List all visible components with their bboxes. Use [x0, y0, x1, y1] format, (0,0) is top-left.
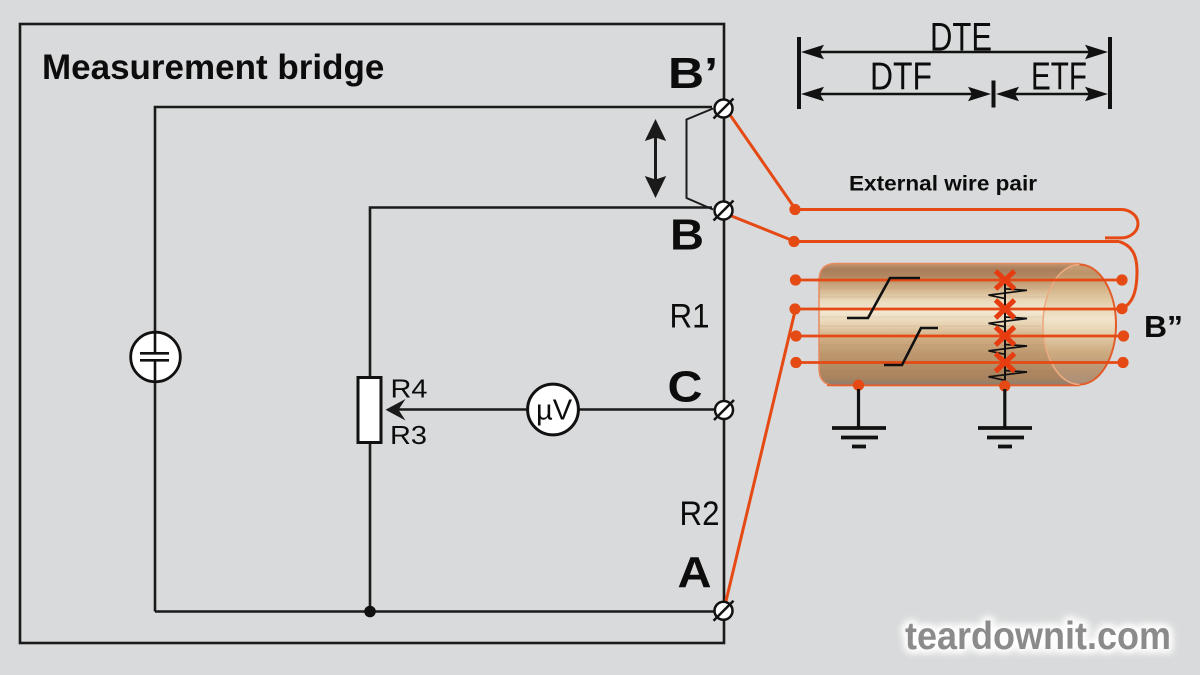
node dot cable wire 1 left [790, 274, 801, 285]
double arrow [645, 119, 666, 198]
node dot cable wire 4 right [1117, 357, 1128, 368]
pot wiper arrow [386, 399, 406, 421]
orange wire B' to pair top [728, 112, 796, 210]
svg-text:µV: µV [536, 395, 573, 427]
DTF arrow [818, 93, 975, 96]
voltage source U1 [131, 332, 181, 382]
node dot cable wire 1 right [1116, 274, 1127, 285]
node C [714, 400, 734, 420]
zigzag 2 [989, 317, 1028, 327]
microvoltmeter [528, 384, 579, 435]
wire top bridge (B' branch) [155, 107, 712, 612]
node dot pair wire bottom [788, 236, 799, 247]
svg-text:B: B [670, 211, 704, 260]
cable end cap [1043, 265, 1116, 385]
left bar [797, 37, 801, 109]
external pair bottom wire [794, 240, 1119, 243]
orange wire B to pair bottom [729, 215, 795, 242]
wire second bridge (B branch) [370, 208, 712, 612]
splice mark 2 [884, 328, 938, 365]
node dot cable wire 3 left [790, 330, 801, 341]
zigzag 4 [989, 371, 1028, 381]
ground 1 [832, 380, 886, 447]
node dot cable wire 4 left [790, 357, 801, 368]
splice mark 1 [847, 278, 920, 318]
node B [714, 201, 734, 221]
X fault 3 [996, 327, 1015, 345]
measurement bridge box [20, 24, 724, 643]
node A [714, 601, 734, 621]
X fault 2 [996, 300, 1015, 318]
orange wire A to cable wire 2 [726, 309, 796, 601]
svg-text:teardownit.com: teardownit.com [905, 615, 1171, 658]
potentiometer R4/R3 [358, 378, 381, 443]
svg-text:R2: R2 [680, 495, 720, 533]
svg-text:R4: R4 [391, 374, 428, 404]
bracket strap B'-B [687, 109, 714, 210]
svg-text:ETF: ETF [1031, 56, 1087, 99]
svg-text:DTE: DTE [930, 16, 992, 60]
middle bar [992, 81, 996, 108]
svg-text:B’: B’ [668, 49, 718, 98]
node B' [714, 99, 734, 119]
node dot cable wire 3 right [1118, 330, 1129, 341]
cylinder bottom edge accent [827, 384, 1079, 386]
cable wire 4 [796, 361, 1123, 364]
junction dot [364, 606, 376, 618]
end cap right outline accent [1080, 265, 1117, 385]
svg-text:DTF: DTF [870, 56, 932, 99]
right bar [1108, 37, 1112, 109]
cable wire 1 [796, 279, 1123, 282]
DTE arrow [818, 51, 1091, 54]
wire bottom [155, 610, 714, 613]
svg-text:External wire pair: External wire pair [849, 172, 1038, 196]
node dot cable wire 2 left [789, 303, 800, 314]
fault chain vertical [1004, 280, 1006, 385]
arc down to cable wire 2 right end [1119, 242, 1137, 309]
wire meter to node C [396, 408, 714, 411]
cable wire 2 [795, 308, 1122, 311]
svg-text:Measurement bridge: Measurement bridge [42, 48, 384, 87]
cable wire 3 [796, 335, 1124, 338]
zigzag 3 [989, 345, 1028, 355]
external pair top wire with U-turn [795, 210, 1138, 238]
X fault 4 [996, 354, 1015, 372]
ETF arrow [1012, 93, 1091, 96]
DTE dimension group [799, 37, 1110, 109]
X fault 1 [996, 271, 1015, 289]
node dot cable wire 2 right (B") [1116, 303, 1127, 314]
svg-text:C: C [668, 362, 703, 411]
svg-text:B”: B” [1144, 309, 1183, 344]
cylinder texture stripes [819, 271, 1079, 371]
node dot pair wire top [789, 204, 800, 215]
svg-text:A: A [678, 548, 712, 597]
dimension arrowheads [801, 45, 1108, 101]
svg-text:R3: R3 [390, 420, 427, 450]
svg-text:R1: R1 [670, 298, 710, 336]
zigzag 1 [989, 289, 1028, 299]
ground 2 [978, 380, 1032, 446]
